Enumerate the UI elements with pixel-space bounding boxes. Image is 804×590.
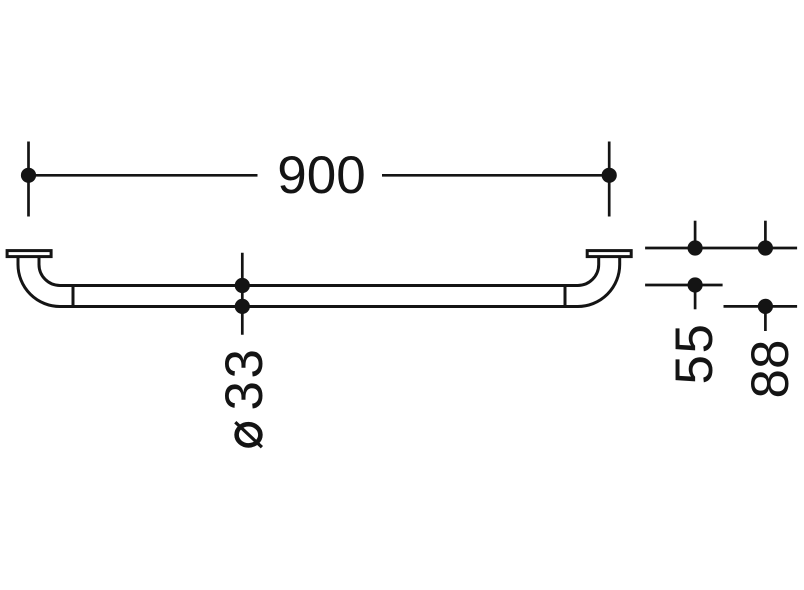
dimension 900: left line segment — [29, 174, 258, 177]
dimension ø33: diameter symbol (drawn) — [235, 422, 262, 447]
dimension 88: bar bottom line — [724, 305, 798, 308]
dimension 900: left dot — [21, 168, 36, 183]
grab bar: left wall flange — [7, 251, 51, 257]
dimension ø33: lower dot — [235, 299, 250, 314]
dimension 55: tick at wall — [694, 221, 697, 248]
dimension 88: dot at bar bottom — [758, 299, 773, 314]
dimension 88: tick at wall — [764, 221, 767, 248]
grab bar: inner contour (top) — [39, 258, 599, 286]
dimension 88: dot at wall — [758, 240, 773, 255]
dimension 900: left extension tick — [27, 142, 30, 217]
dimension 55: dot at bar top — [688, 277, 703, 292]
dimension 900: right extension tick — [608, 142, 611, 217]
svg-text:33: 33 — [215, 347, 274, 411]
svg-text:55: 55 — [665, 323, 724, 385]
dimension 900: right dot — [602, 168, 617, 183]
dimension 55: bar top line — [645, 284, 723, 287]
dimension 900: right line segment — [382, 174, 609, 177]
grab bar: left joint seam — [72, 286, 75, 307]
dimension ø33: upper dot — [235, 278, 250, 293]
dimension 55: dot at wall — [688, 240, 703, 255]
dimension 55/88: wall plane line — [645, 247, 797, 250]
grab bar: outer contour (bottom) — [18, 258, 620, 307]
dimension 88: tick below bar bottom — [764, 306, 767, 331]
grab bar: right wall flange — [587, 251, 631, 257]
svg-text:88: 88 — [741, 340, 800, 399]
dimension 55: tick below bar top — [694, 285, 697, 309]
svg-text:900: 900 — [277, 146, 365, 205]
grab bar: right joint seam — [564, 286, 567, 307]
dimension ø33: vertical line — [241, 253, 244, 335]
